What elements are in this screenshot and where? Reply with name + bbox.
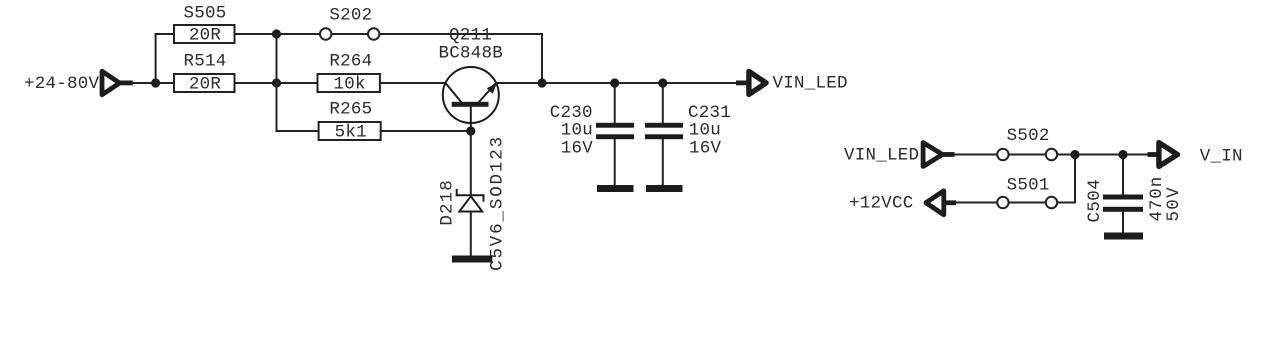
wire C231 lead bottom — [662, 139, 664, 186]
svg-text:R514: R514 — [184, 52, 227, 72]
port VIN_LED in arrow — [923, 143, 954, 167]
wire R265 to base node — [381, 130, 471, 132]
wire node B to R265 — [277, 130, 319, 132]
junction input node — [151, 78, 160, 87]
wire node B2 to R264 — [277, 82, 318, 84]
svg-text:16V: 16V — [561, 139, 594, 159]
svg-text:+12VCC: +12VCC — [849, 194, 914, 214]
wire junction to R514 — [156, 82, 174, 84]
jumper S501 — [997, 176, 1057, 209]
wire C230 lead top — [614, 83, 616, 123]
resistor R264 — [318, 52, 380, 95]
resistor S505 — [174, 4, 235, 46]
wire R514 to node B2 — [235, 82, 277, 84]
svg-text:S501: S501 — [1007, 176, 1050, 196]
wire +12VCC to S501 — [956, 202, 997, 204]
jumper S502 — [997, 126, 1057, 160]
wire C230 lead bottom — [614, 139, 616, 186]
capacitor C230 — [550, 103, 634, 159]
svg-text:20R: 20R — [189, 75, 222, 95]
ground C504 — [1104, 233, 1143, 240]
wire vertical node B — [276, 34, 278, 131]
capacitor C231 — [645, 103, 731, 159]
svg-text:D218: D218 — [437, 179, 457, 225]
svg-text:+24-80V: +24-80V — [24, 74, 100, 94]
wire S202 to corner — [380, 33, 542, 35]
jumper S202 — [320, 6, 379, 40]
svg-text:VIN_LED: VIN_LED — [844, 146, 919, 166]
wire S505 to node B — [235, 33, 277, 35]
junction collector node — [537, 78, 546, 87]
wire base node to diode — [470, 131, 472, 195]
svg-text:10u: 10u — [689, 121, 721, 141]
junction C231 node — [658, 78, 667, 87]
svg-text:V_IN: V_IN — [1200, 147, 1243, 167]
junction node B2 — [272, 78, 281, 87]
ground C231 — [646, 185, 683, 192]
transistor Q211 — [443, 67, 499, 131]
wire junction up — [155, 34, 157, 83]
svg-text:20R: 20R — [189, 26, 222, 46]
resistor R265 — [319, 100, 381, 143]
resistor R514 — [174, 52, 235, 95]
svg-text:S502: S502 — [1007, 126, 1050, 146]
wire emitter to collector node — [496, 82, 542, 84]
wire node B to S202 — [277, 33, 320, 35]
wire to S505 — [156, 33, 174, 35]
wire R264 to transistor base-side — [380, 82, 446, 84]
wire corner down to collector node — [541, 34, 543, 83]
junction C230 node — [610, 78, 619, 87]
junction node B top — [272, 29, 281, 38]
svg-text:Q211: Q211 — [449, 26, 492, 46]
port V_IN arrow — [1148, 143, 1178, 167]
wire S502 to V_IN — [1057, 154, 1148, 156]
junction base node — [466, 126, 475, 135]
wire tap to S501 — [1057, 202, 1075, 204]
wire input to junction — [132, 82, 156, 84]
svg-text:5k1: 5k1 — [335, 123, 367, 143]
svg-text:10k: 10k — [334, 75, 366, 95]
wire VIN_LED to S502 — [954, 154, 997, 156]
svg-text:R264: R264 — [329, 52, 372, 72]
svg-text:C5V6_SOD123: C5V6_SOD123 — [488, 135, 508, 271]
capacitor C504 — [1085, 176, 1184, 223]
wire tap down — [1074, 155, 1076, 203]
ground C230 — [597, 185, 634, 192]
svg-text:50V: 50V — [1164, 186, 1184, 221]
port +24-80V arrow — [102, 71, 133, 95]
svg-text:BC848B: BC848B — [439, 44, 504, 64]
wire diode to ground — [470, 212, 472, 257]
port VIN_LED out arrow — [736, 71, 766, 94]
wire C231 lead top — [662, 83, 664, 123]
svg-text:VIN_LED: VIN_LED — [773, 74, 848, 94]
svg-text:C504: C504 — [1085, 179, 1105, 223]
junction C504 node — [1118, 150, 1127, 159]
diode D218 zener — [457, 190, 484, 212]
ground D218 — [452, 256, 492, 263]
wire C504 lead top — [1122, 155, 1124, 195]
junction S501 tap — [1070, 150, 1079, 159]
svg-text:10u: 10u — [561, 121, 593, 141]
svg-text:S505: S505 — [184, 4, 227, 24]
port +12VCC arrow — [926, 191, 956, 215]
wire main to VIN_LED — [542, 82, 737, 84]
svg-text:16V: 16V — [689, 139, 722, 159]
svg-text:R265: R265 — [329, 100, 372, 120]
wire C504 lead bottom — [1122, 212, 1124, 233]
svg-text:S202: S202 — [329, 6, 372, 26]
